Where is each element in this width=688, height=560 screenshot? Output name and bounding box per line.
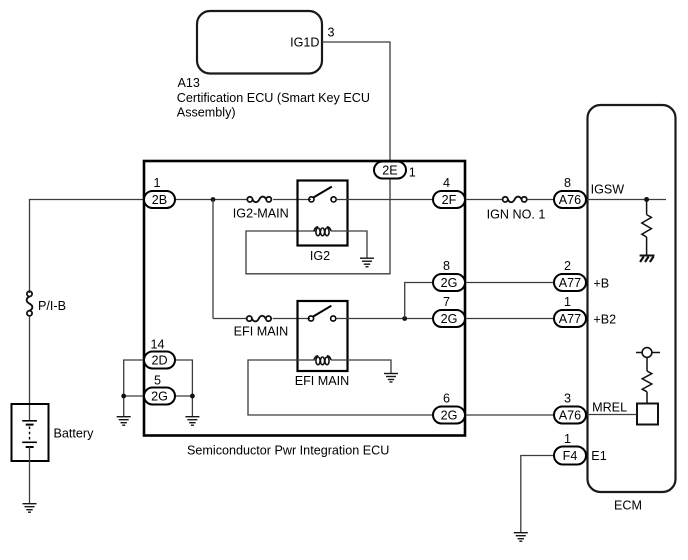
wire battery to ground — [29, 447, 31, 504]
connector 2G pin8 — [433, 259, 465, 291]
svg-text:IG2-MAIN: IG2-MAIN — [233, 207, 289, 221]
ground EFI coil — [384, 374, 398, 383]
fuse IGN NO. 1 — [503, 197, 527, 203]
svg-text:4: 4 — [443, 176, 450, 190]
wire 2D left loop — [124, 360, 146, 416]
svg-text:MREL: MREL — [592, 401, 627, 415]
svg-text:A76: A76 — [559, 193, 581, 207]
junction dot left of 2G5 — [121, 394, 126, 399]
svg-text:8: 8 — [564, 176, 571, 190]
svg-text:+B: +B — [593, 277, 609, 291]
wire battery bus top horizontal to 2B — [30, 200, 147, 294]
driver block MREL — [637, 404, 658, 425]
chassis ground IGSW — [640, 256, 655, 263]
svg-text:2G: 2G — [441, 312, 458, 326]
junction dot IGSW — [644, 197, 649, 202]
wire MREL — [586, 414, 637, 416]
wire 2G pin5 right — [173, 395, 192, 397]
resistor IGSW pulldown — [642, 200, 652, 255]
wire EFI row to fuse — [213, 318, 247, 320]
connector A77 pin2 — [554, 259, 586, 291]
wire junction up to 2G pin8 — [405, 283, 434, 319]
svg-text:A77: A77 — [559, 276, 581, 290]
wire 2G6 to A76 pin3 — [464, 414, 555, 416]
ECU A13 box — [197, 11, 322, 74]
svg-text:Assembly): Assembly) — [177, 106, 236, 120]
connector A77 pin1 — [554, 295, 586, 327]
svg-text:EFI MAIN: EFI MAIN — [234, 325, 289, 339]
svg-text:P/I-B: P/I-B — [38, 299, 66, 313]
svg-text:2F: 2F — [442, 193, 457, 207]
svg-text:3: 3 — [328, 26, 335, 40]
svg-text:2G: 2G — [151, 390, 168, 404]
connector 2G pin7 — [433, 295, 465, 327]
svg-text:1: 1 — [564, 432, 571, 446]
wire IG1D to 2E — [322, 42, 390, 162]
svg-text:EFI MAIN: EFI MAIN — [295, 374, 350, 388]
svg-text:F4: F4 — [563, 449, 578, 463]
fuse EFI MAIN — [247, 316, 271, 322]
svg-text:3: 3 — [564, 392, 571, 406]
svg-text:E1: E1 — [591, 449, 606, 463]
connector 2E — [374, 162, 416, 180]
connector 2G pin5 — [144, 374, 175, 405]
ground IG2 coil — [360, 258, 374, 267]
junction dot EFI output — [402, 316, 407, 321]
wire IG2 coil to ground — [331, 231, 367, 258]
svg-text:1: 1 — [153, 176, 160, 190]
wire 2B to IG2-MAIN fuse — [173, 199, 247, 201]
relay IG2 box — [298, 181, 348, 246]
svg-text:A77: A77 — [559, 312, 581, 326]
battery — [12, 404, 49, 461]
svg-text:A13: A13 — [178, 76, 200, 90]
wire 2G pin5 left — [124, 395, 146, 397]
wire fuse to EFI relay — [273, 318, 310, 320]
wire IGSW internal — [586, 199, 666, 201]
connector 2F — [433, 176, 465, 208]
wire fuse to A76 — [527, 199, 555, 201]
ground E1 — [514, 533, 528, 542]
svg-text:1: 1 — [564, 295, 571, 309]
wire 2E into box down and around to IG2 coil — [246, 178, 390, 274]
svg-text:2G: 2G — [441, 409, 458, 423]
fuse IG2-MAIN — [247, 197, 271, 203]
wire fuse to battery — [29, 316, 31, 421]
svg-text:7: 7 — [443, 295, 450, 309]
svg-text:14: 14 — [150, 338, 164, 352]
svg-text:IGSW: IGSW — [591, 183, 625, 197]
wire 2F to IGN fuse — [464, 199, 503, 201]
svg-text:2G: 2G — [441, 276, 458, 290]
svg-text:IG2: IG2 — [310, 249, 330, 263]
wire EFI coil to ground — [331, 360, 391, 373]
svg-text:Semiconductor Pwr Integration: Semiconductor Pwr Integration ECU — [187, 444, 389, 458]
connector A76 pin3 — [554, 392, 586, 424]
wire 2G7 to A77 pin1 — [464, 318, 555, 320]
svg-text:Battery: Battery — [54, 427, 95, 441]
relay EFI MAIN coil — [314, 356, 331, 365]
Semiconductor ECU box — [144, 161, 465, 436]
ground left of 2G5 — [117, 417, 131, 426]
wire 2D right loop — [173, 360, 192, 416]
svg-text:1: 1 — [409, 165, 416, 179]
junction dot on 2B wire — [211, 197, 216, 202]
ECM box — [588, 105, 676, 492]
ground battery — [23, 504, 37, 513]
fuse P/I-B — [27, 291, 33, 316]
svg-text:2E: 2E — [382, 164, 397, 178]
wire F4 to ground — [521, 456, 555, 533]
junction dot right of 2G5 — [190, 394, 195, 399]
wire junction down to EFI row — [212, 200, 214, 319]
wire IG2 contact to 2F — [336, 199, 434, 201]
connector A76 pin8 — [554, 176, 586, 208]
ground right of 2G5 — [185, 417, 199, 426]
wire 2G8 to A77 pin2 — [464, 282, 555, 284]
connector 2G pin6 — [433, 392, 465, 424]
power node MREL — [636, 348, 660, 358]
svg-text:ECM: ECM — [614, 499, 642, 513]
svg-text:A76: A76 — [559, 409, 581, 423]
svg-text:2B: 2B — [152, 193, 167, 207]
wire fuse to IG2 relay — [273, 199, 311, 201]
svg-text:2D: 2D — [151, 354, 167, 368]
relay IG2 coil — [314, 227, 331, 236]
relay EFI MAIN box — [298, 301, 348, 371]
svg-text:5: 5 — [154, 374, 161, 388]
connector 2D — [144, 338, 175, 369]
wire EFI contact to 2G pin7 — [336, 318, 434, 320]
relay EFI MAIN contacts — [308, 306, 335, 321]
connector 2B — [144, 176, 175, 208]
svg-text:IGN NO. 1: IGN NO. 1 — [487, 208, 546, 222]
svg-text:Certification ECU (Smart Key E: Certification ECU (Smart Key ECU — [177, 91, 370, 105]
resistor MREL — [642, 357, 652, 403]
connector F4 — [554, 432, 586, 465]
svg-text:2: 2 — [564, 259, 571, 273]
svg-text:IG1D: IG1D — [290, 36, 319, 50]
svg-text:+B2: +B2 — [593, 313, 616, 327]
svg-text:6: 6 — [443, 392, 450, 406]
wire EFI coil left to 2G pin6 — [248, 360, 434, 415]
svg-text:8: 8 — [443, 259, 450, 273]
relay IG2 contacts — [309, 187, 336, 202]
